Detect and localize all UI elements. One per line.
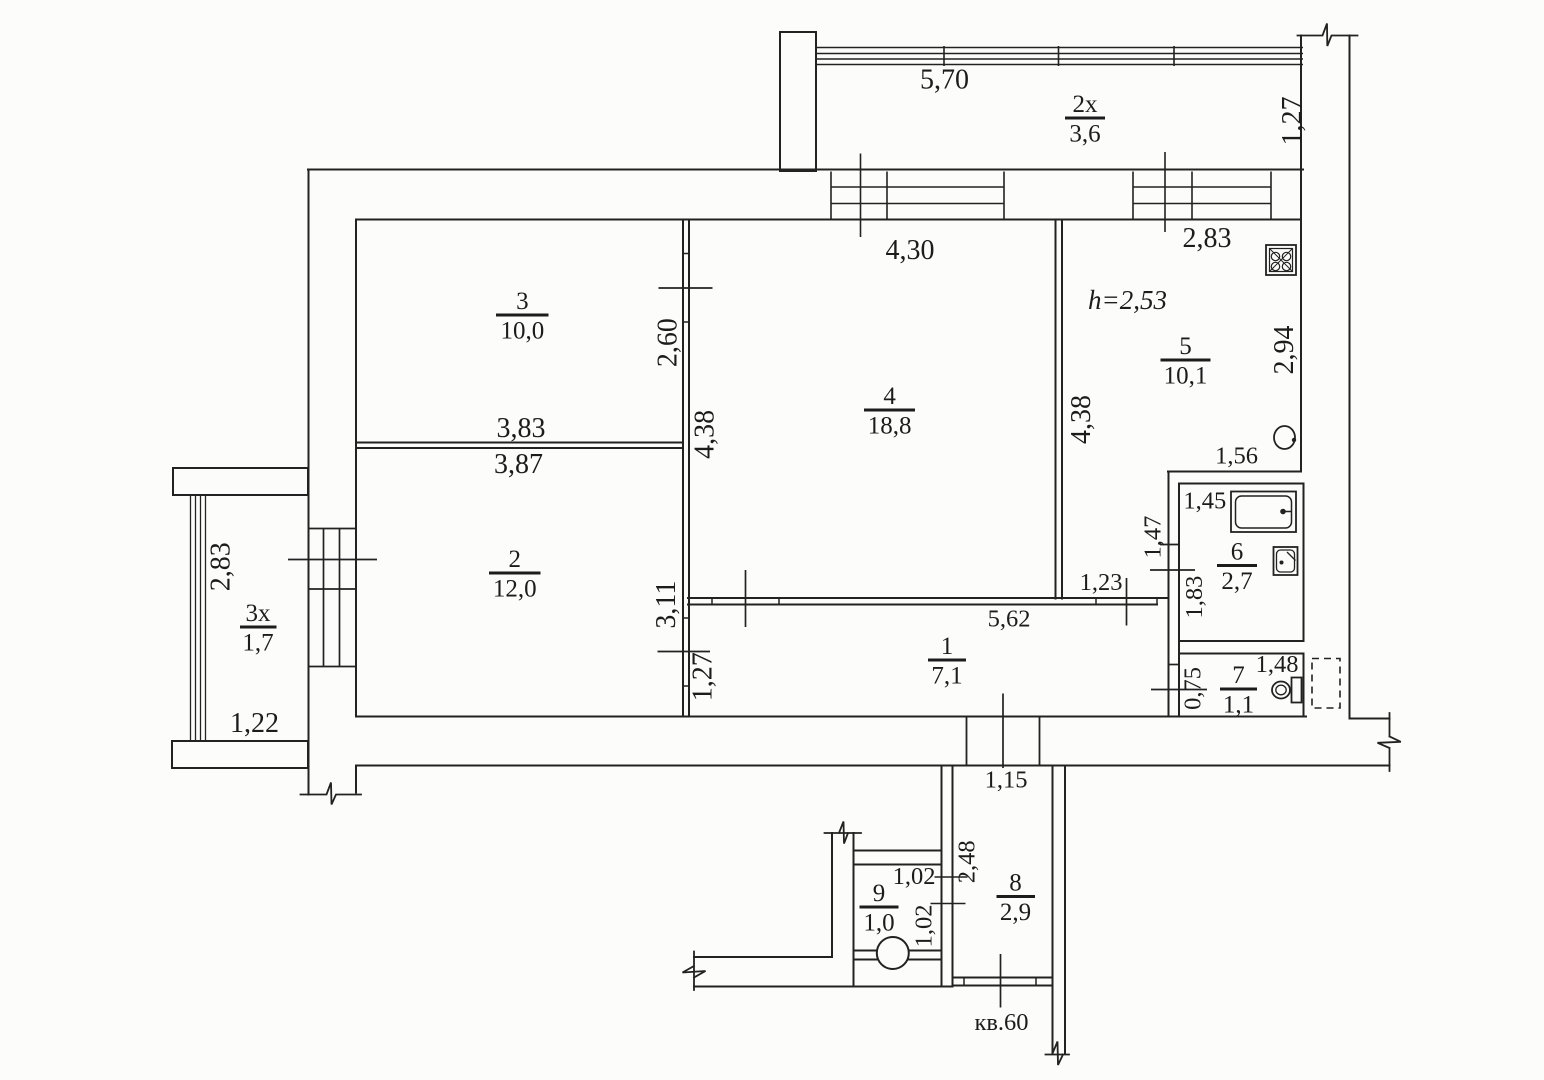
svg-text:1,23: 1,23 xyxy=(1080,569,1123,596)
room3 fraction bar xyxy=(496,314,549,317)
svg-text:1,83: 1,83 xyxy=(1181,576,1208,619)
wall left-bottom stub xyxy=(355,766,357,793)
dim tick 1,02 lower xyxy=(931,903,966,905)
svg-text:4: 4 xyxy=(883,383,896,410)
wall left inner xyxy=(355,220,357,717)
svg-text:10,1: 10,1 xyxy=(1164,363,1208,390)
balcony 3x railing lines xyxy=(191,495,206,741)
svg-text:5,70: 5,70 xyxy=(920,65,969,96)
wall top inner xyxy=(356,219,1301,221)
wall rooms3,2/4 partition xyxy=(683,220,689,717)
svg-text:2,60: 2,60 xyxy=(653,318,684,367)
balcony3x fraction bar xyxy=(240,626,277,629)
svg-text:1,15: 1,15 xyxy=(985,767,1028,794)
break symbol bottom-left xyxy=(301,783,362,805)
chute wall lines xyxy=(854,951,942,960)
window room4 dim tick xyxy=(860,154,862,238)
bathtub room6 xyxy=(1231,492,1296,533)
svg-text:4,38: 4,38 xyxy=(690,410,721,459)
break symbol room9 top xyxy=(825,822,862,844)
svg-text:10,0: 10,0 xyxy=(501,318,545,345)
balcony 3x top bar xyxy=(173,468,308,495)
balcony2x fraction bar xyxy=(1065,117,1105,120)
svg-text:2,9: 2,9 xyxy=(1000,899,1031,926)
svg-text:3,83: 3,83 xyxy=(497,413,546,444)
toilet room7 xyxy=(1272,678,1302,703)
svg-text:1,56: 1,56 xyxy=(1215,443,1258,470)
room8 door connectors xyxy=(964,978,1036,986)
room7 right edge xyxy=(1303,654,1305,717)
svg-text:9: 9 xyxy=(873,880,886,907)
svg-text:4,30: 4,30 xyxy=(886,235,935,266)
wall top outer xyxy=(308,169,1303,171)
svg-text:1,27: 1,27 xyxy=(1277,97,1308,146)
dim tick 3,11/1,27 xyxy=(658,651,711,653)
left arm top line xyxy=(694,956,832,958)
svg-text:2: 2 xyxy=(508,546,521,573)
shaft right wall xyxy=(1053,766,1066,1054)
svg-text:h=2,53: h=2,53 xyxy=(1088,285,1167,315)
svg-text:1: 1 xyxy=(941,633,954,660)
kitchen sink xyxy=(1274,426,1296,449)
svg-text:7: 7 xyxy=(1232,662,1245,689)
svg-text:1,0: 1,0 xyxy=(863,910,894,937)
wall bath block left xyxy=(1169,472,1180,717)
svg-text:2,48: 2,48 xyxy=(953,840,980,883)
balcony 2x pillar xyxy=(780,32,816,171)
window room4 4,30 xyxy=(831,172,1004,220)
svg-text:1,48: 1,48 xyxy=(1256,651,1299,678)
svg-text:1,1: 1,1 xyxy=(1223,692,1254,719)
balcony door block room2 xyxy=(309,528,357,667)
window room5 dim tick xyxy=(1164,152,1166,232)
svg-text:6: 6 xyxy=(1231,539,1244,566)
svg-text:18,8: 18,8 xyxy=(868,413,912,440)
room6 fraction bar xyxy=(1217,564,1257,567)
wall rooms3-2 partition xyxy=(356,443,683,449)
svg-text:5,62: 5,62 xyxy=(988,606,1031,633)
svg-text:3,87: 3,87 xyxy=(494,449,543,480)
dim tick 1,47 top xyxy=(1160,544,1179,546)
break symbol shaft bottom xyxy=(1046,1042,1070,1066)
room2 fraction bar xyxy=(489,572,541,575)
wall right outer xyxy=(1349,36,1351,719)
svg-text:3: 3 xyxy=(516,288,529,315)
dim tick 0,75 top xyxy=(1169,664,1180,666)
balcony door dim tick xyxy=(288,559,377,561)
svg-text:2,7: 2,7 xyxy=(1221,568,1252,595)
svg-text:3,11: 3,11 xyxy=(651,581,682,629)
wall rooms6/7 divider xyxy=(1179,653,1304,655)
break symbol bottom-right xyxy=(1378,713,1401,771)
svg-text:1,27: 1,27 xyxy=(688,652,719,701)
dim tick 0,75 xyxy=(1151,689,1207,691)
dashed duct rectangle xyxy=(1312,659,1340,709)
room9 left wall xyxy=(832,833,854,986)
dim tick 1,15 xyxy=(1002,694,1004,769)
room8 fraction bar xyxy=(997,895,1036,898)
room4 fraction bar xyxy=(864,409,915,412)
wall bottom inner xyxy=(356,716,1306,718)
room1 fraction bar xyxy=(928,659,966,662)
room5 fraction bar xyxy=(1161,359,1211,362)
wall kitchen bottom / bath block top xyxy=(1168,471,1300,473)
dim tick 1,23 xyxy=(1126,578,1128,626)
room9 fraction bar xyxy=(860,906,899,909)
wall connector marks xyxy=(683,254,1157,687)
svg-text:3,6: 3,6 xyxy=(1069,121,1100,148)
svg-text:1,22: 1,22 xyxy=(230,708,279,739)
svg-text:2,94: 2,94 xyxy=(1269,326,1300,375)
wall bottom-right step xyxy=(1350,718,1390,720)
balcony 2x railing lines xyxy=(816,48,1303,65)
svg-text:1,47: 1,47 xyxy=(1140,516,1167,559)
room9 top wall xyxy=(854,851,942,865)
svg-text:0,75: 0,75 xyxy=(1179,667,1206,710)
svg-text:2,83: 2,83 xyxy=(1183,223,1232,254)
balcony 2x railing dividers xyxy=(944,46,1174,66)
room8 bottom wall xyxy=(953,978,1052,986)
window room5 2,83 xyxy=(1133,172,1271,220)
break symbol left arm xyxy=(683,952,706,991)
wall room4/room5 partition xyxy=(1056,220,1063,599)
washbasin room6 xyxy=(1274,547,1298,575)
svg-text:1,7: 1,7 xyxy=(242,630,273,657)
dim tick 1,02 upper xyxy=(935,876,968,878)
wall room4/corridor1 xyxy=(688,598,1168,605)
svg-text:8: 8 xyxy=(1009,870,1022,897)
svg-text:2,83: 2,83 xyxy=(206,542,237,591)
shaft left wall xyxy=(942,766,953,987)
dim tick 1,47/1,83 xyxy=(1150,569,1195,571)
wall bottom outer xyxy=(356,765,1390,767)
wall right inner xyxy=(1300,36,1302,472)
balcony 3x bottom bar xyxy=(172,741,308,768)
svg-text:7,1: 7,1 xyxy=(931,663,962,690)
wall left outer xyxy=(308,170,310,795)
dim tick kv60 xyxy=(1000,954,1002,1008)
left arm bottom line xyxy=(694,986,953,988)
svg-text:кв.60: кв.60 xyxy=(974,1009,1028,1036)
doorway jambs bottom wall xyxy=(967,717,1040,766)
svg-text:1,02: 1,02 xyxy=(893,863,936,890)
svg-text:4,38: 4,38 xyxy=(1066,395,1097,444)
garbage chute circle xyxy=(877,937,909,969)
dim tick 2,60 xyxy=(659,287,713,289)
svg-text:1,02: 1,02 xyxy=(911,904,938,947)
svg-text:12,0: 12,0 xyxy=(493,576,537,603)
svg-text:2x: 2x xyxy=(1073,91,1099,118)
svg-text:3x: 3x xyxy=(246,600,272,627)
break symbol top-right xyxy=(1298,24,1358,47)
vent square kitchen xyxy=(1266,245,1296,275)
room7 fraction bar xyxy=(1220,688,1257,691)
svg-text:1,45: 1,45 xyxy=(1183,488,1226,515)
svg-text:5: 5 xyxy=(1179,333,1192,360)
room6 box xyxy=(1179,484,1304,642)
dim tick 5,62 left xyxy=(745,570,747,627)
